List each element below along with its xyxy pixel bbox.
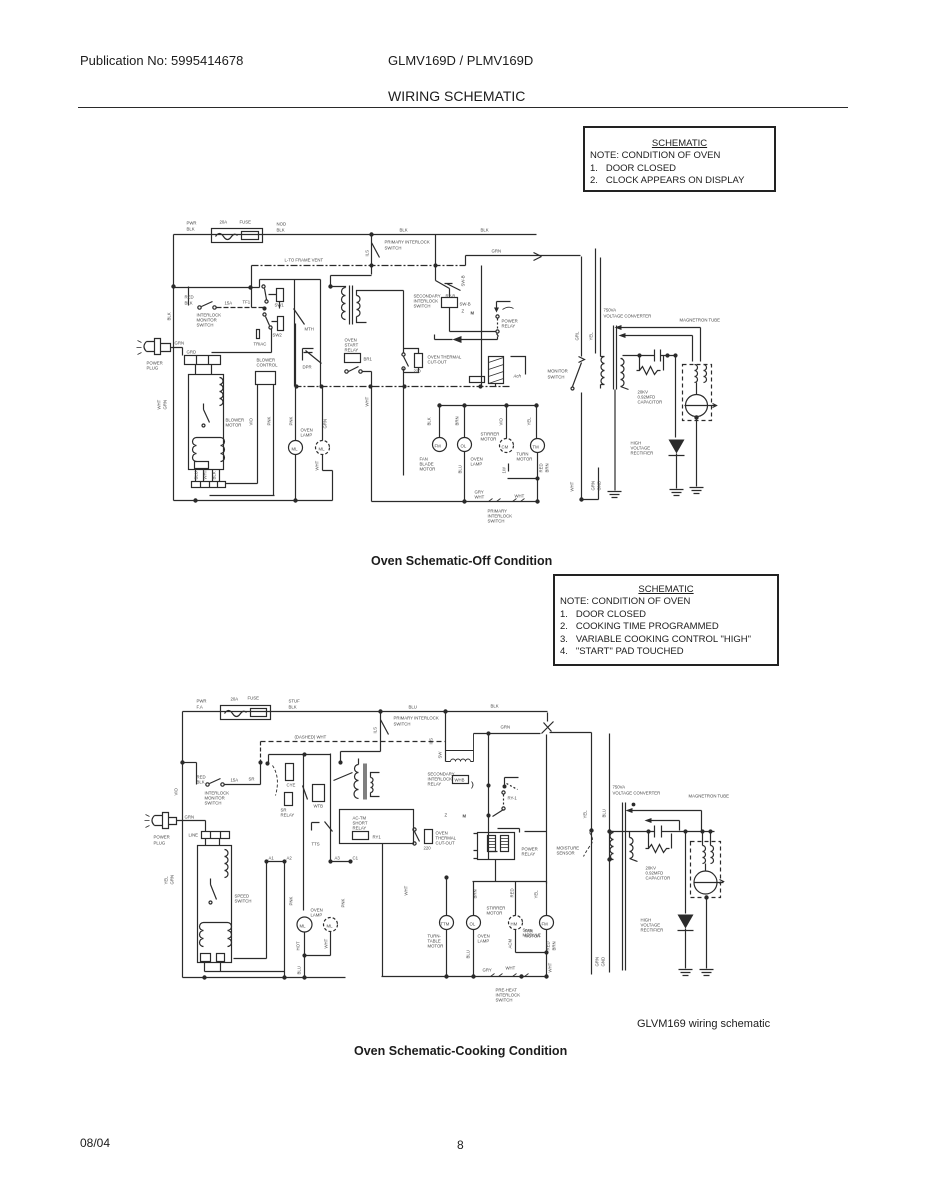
svg-text:BLU: BLU	[297, 966, 302, 974]
transformer HV primary	[610, 832, 614, 860]
wire motor bus	[439, 405, 537, 407]
svg-text:WHT: WHT	[570, 481, 575, 491]
svg-text:LINE: LINE	[189, 833, 199, 838]
switch blade mid	[303, 786, 308, 800]
svg-text:NOD: NOD	[277, 222, 287, 227]
svg-text:20A: 20A	[220, 220, 228, 225]
node transformer taps	[608, 830, 611, 833]
fuse F1 box	[212, 229, 263, 243]
wire dashed WHT	[261, 741, 446, 743]
switch TCO contacts	[413, 828, 416, 831]
switch DHR blade	[304, 351, 322, 364]
magnetron box dashed	[683, 365, 712, 421]
svg-text:MONITOR: MONITOR	[548, 369, 568, 374]
node mid bus	[444, 710, 447, 713]
svg-text:WHT: WHT	[506, 966, 516, 971]
relay coil loop	[446, 734, 474, 762]
resistor loop	[646, 834, 672, 853]
wire spur	[516, 952, 547, 954]
node LV top	[339, 761, 342, 764]
magnetron heater	[695, 365, 707, 383]
svg-text:BLK: BLK	[277, 228, 285, 233]
svg-text:ILS: ILS	[365, 250, 370, 257]
filament arrow 1	[615, 325, 622, 330]
switch SW-A blade	[436, 281, 450, 298]
transformer LV primary	[354, 765, 359, 799]
svg-text:YEL: YEL	[589, 332, 594, 341]
svg-text:BLK: BLK	[185, 301, 193, 306]
svg-text:BLU: BLU	[409, 705, 417, 710]
svg-text:BR1: BR1	[364, 357, 373, 362]
node junction	[172, 285, 175, 288]
svg-text:RELAY: RELAY	[428, 782, 442, 787]
svg-text:SWITCH: SWITCH	[414, 304, 431, 309]
blower switch	[211, 879, 217, 900]
svg-text:GND: GND	[601, 957, 606, 967]
wire cap row	[610, 831, 715, 833]
svg-text:TTS: TTS	[312, 842, 320, 847]
wire drop left	[196, 763, 198, 785]
wire x330	[330, 754, 332, 862]
svg-text:PNK: PNK	[341, 899, 346, 908]
svg-text:220: 220	[424, 846, 432, 851]
wire dash-dot lower	[295, 386, 511, 388]
resistor loop	[637, 356, 664, 375]
transformer T1 primary	[342, 288, 346, 320]
note box 1	[583, 126, 776, 192]
wire x266	[234, 862, 267, 959]
svg-text:MOTOR: MOTOR	[420, 467, 436, 472]
svg-text:CUT-OUT: CUT-OUT	[436, 841, 455, 846]
svg-text:ILS: ILS	[373, 727, 378, 734]
wire cap row	[623, 355, 676, 357]
svg-text:RY-B: RY-B	[446, 294, 456, 299]
squiggle hook	[472, 782, 474, 789]
wire x581 lower	[582, 393, 599, 500]
transformer LV core	[364, 764, 366, 800]
motor FM	[540, 916, 554, 930]
svg-text:BRN: BRN	[455, 416, 460, 425]
svg-text:VOLTAGE CONVERTER: VOLTAGE CONVERTER	[604, 314, 652, 319]
resistor WTB	[313, 785, 325, 802]
relay coil hatched B	[501, 836, 509, 852]
wire magnetron ground	[706, 898, 708, 969]
switch relay contact upper right	[445, 284, 461, 291]
svg-text:GRN: GRN	[595, 957, 600, 967]
svg-text:750VA: 750VA	[604, 308, 617, 313]
svg-text:PLUG: PLUG	[147, 366, 159, 371]
component box M1	[256, 372, 276, 385]
thermistor ticks	[489, 499, 525, 502]
relay assembly box	[478, 833, 515, 860]
node ILS top	[370, 233, 373, 236]
svg-text:GRN: GRN	[323, 419, 328, 429]
wire rail left	[183, 977, 346, 979]
svg-text:GRN: GRN	[170, 875, 175, 885]
svg-text:SWITCH: SWITCH	[197, 323, 214, 328]
svg-text:SWITCH: SWITCH	[205, 801, 222, 806]
svg-text:PNK: PNK	[267, 417, 272, 426]
wire x481 vertical	[481, 266, 483, 387]
svg-text:RED: RED	[510, 888, 515, 897]
svg-text:RELAY: RELAY	[502, 324, 516, 329]
svg-text:GRN: GRN	[163, 400, 168, 410]
ground magnetron	[700, 970, 714, 976]
svg-text:SR: SR	[249, 777, 255, 782]
svg-text:ML: ML	[327, 924, 334, 929]
filament arrow 1	[626, 808, 633, 813]
svg-text:BLK: BLK	[187, 227, 195, 232]
svg-text:PNK: PNK	[289, 897, 294, 906]
transformer T1 secondary	[357, 291, 367, 323]
wire grn riser	[465, 256, 467, 266]
wire plug to strip	[205, 821, 207, 832]
svg-text:FUSE: FUSE	[240, 220, 252, 225]
svg-text:YEL: YEL	[527, 417, 532, 426]
wire x595	[595, 249, 597, 354]
svg-text:WHT: WHT	[315, 460, 320, 470]
node dash junctions	[370, 264, 373, 267]
switch ILS2 dashed	[273, 766, 278, 796]
resistor R-B	[278, 317, 284, 331]
caption schematic 2	[354, 1044, 567, 1058]
svg-text:BLK: BLK	[481, 228, 489, 233]
wire OL down	[473, 930, 475, 977]
svg-text:WHT: WHT	[203, 469, 208, 479]
svg-text:PWR: PWR	[197, 699, 207, 704]
wire CL drop	[506, 406, 508, 439]
wire TTM down	[446, 930, 448, 977]
svg-text:POWER: POWER	[154, 835, 170, 840]
resistor R-A	[277, 289, 284, 302]
svg-text:VIO: VIO	[499, 417, 504, 425]
wire rail C	[372, 501, 538, 503]
resistor TCO	[425, 830, 433, 844]
svg-text:ML: ML	[319, 447, 326, 452]
node dash end	[259, 761, 262, 764]
node rail dots	[194, 499, 197, 502]
wire left vertical	[182, 712, 184, 978]
wire branch	[174, 266, 260, 308]
relay coil feed bracket	[498, 829, 547, 833]
wires strip to blower	[206, 839, 220, 846]
filament arrow 2	[645, 818, 652, 823]
wire x255 vertical	[226, 385, 258, 484]
svg-text:GND: GND	[597, 481, 602, 491]
svg-text:ML: ML	[300, 924, 307, 929]
svg-text:BLU: BLU	[466, 950, 471, 958]
relay armature	[505, 778, 519, 785]
svg-text:ML: ML	[292, 447, 299, 452]
wire GRN run	[474, 733, 541, 735]
svg-text:A1: A1	[269, 856, 275, 861]
svg-text:BRN: BRN	[545, 463, 550, 472]
node x591	[590, 829, 593, 832]
svg-text:FM: FM	[542, 922, 549, 927]
svg-text:RELAY: RELAY	[345, 348, 359, 353]
svg-text:WHT: WHT	[324, 938, 329, 948]
transformer HV core	[623, 803, 626, 971]
svg-text:CONTROL: CONTROL	[257, 363, 279, 368]
wire relay coil feed	[546, 735, 548, 884]
magnetron tube	[694, 871, 717, 894]
wire lamp spur	[305, 955, 331, 957]
terminal small	[257, 330, 260, 339]
wire TM down	[537, 453, 539, 502]
svg-text:WHT: WHT	[157, 399, 162, 409]
blower coil lower	[193, 438, 225, 462]
svg-text:OL: OL	[470, 922, 476, 927]
svg-text:GRD: GRD	[187, 350, 197, 355]
svg-text:MOTOR: MOTOR	[428, 944, 444, 949]
footer page number	[457, 1138, 464, 1152]
wire top bus L1	[183, 711, 548, 713]
svg-text:YEL: YEL	[583, 810, 588, 819]
relay bottom bracket	[474, 834, 498, 859]
svg-text:Z: Z	[445, 813, 448, 818]
svg-text:BLK: BLK	[289, 705, 297, 710]
wire upper tie	[260, 279, 321, 281]
node x488	[487, 732, 490, 735]
svg-text:BRN: BRN	[552, 941, 557, 950]
wire relay to bus	[495, 860, 497, 882]
switch LV blade	[334, 759, 359, 781]
node x250 junction	[249, 286, 252, 289]
svg-text:MTH: MTH	[305, 327, 314, 332]
blower motor block	[198, 846, 232, 963]
svg-text:FUSE: FUSE	[248, 696, 260, 701]
svg-text:TF1: TF1	[243, 300, 251, 305]
wire drop	[188, 287, 190, 306]
plug P1	[152, 813, 206, 829]
svg-text:RELAY: RELAY	[281, 813, 295, 818]
svg-text:Ach: Ach	[513, 374, 522, 379]
svg-text:RELAY: RELAY	[353, 826, 367, 831]
svg-text:WHB: WHB	[455, 778, 465, 783]
ground rectifier	[670, 490, 684, 496]
svg-text:LAMP: LAMP	[478, 939, 490, 944]
wire ML down	[295, 455, 297, 501]
wire rail C riser	[363, 372, 372, 502]
ground magnetron	[690, 488, 704, 494]
svg-text:ILS: ILS	[429, 738, 434, 745]
wire ILS to transformer	[331, 276, 372, 287]
blower motor block	[189, 375, 224, 470]
wire drops	[474, 882, 547, 916]
svg-text:(DASHED) WHT: (DASHED) WHT	[295, 735, 327, 740]
fuse F1 inner rect	[242, 232, 259, 240]
terminal row	[192, 482, 226, 488]
wire HM down	[515, 930, 517, 953]
svg-text:CUT-OUT: CUT-OUT	[428, 360, 447, 365]
fuse F1 box	[221, 706, 271, 720]
svg-text:VOLTAGE CONVERTER: VOLTAGE CONVERTER	[613, 791, 661, 796]
svg-text:PRIMARY INTERLOCK: PRIMARY INTERLOCK	[394, 716, 439, 721]
svg-text:RED: RED	[539, 463, 544, 472]
header model numbers	[388, 53, 533, 68]
svg-text:SWITCH: SWITCH	[394, 722, 411, 727]
ground rectifier	[679, 970, 693, 976]
svg-text:SW: SW	[438, 751, 443, 759]
note box 2	[553, 574, 779, 666]
svg-text:M: M	[463, 814, 467, 819]
svg-text:BLU: BLU	[458, 465, 463, 473]
wire grn col x581	[581, 257, 583, 357]
wire x600	[600, 258, 602, 354]
svg-text:SW-B: SW-B	[461, 275, 466, 286]
footer date	[80, 1136, 110, 1150]
header rule	[78, 107, 848, 108]
wire plug to strip	[182, 348, 184, 356]
svg-text:BLK: BLK	[491, 704, 499, 709]
svg-text:RECTIFIER: RECTIFIER	[631, 451, 654, 456]
wire ILS to transformer	[341, 752, 381, 763]
wire left vertical	[173, 235, 175, 501]
svg-text:LAMP: LAMP	[311, 913, 323, 918]
relay box SW-B	[442, 298, 458, 308]
svg-text:TM: TM	[533, 445, 540, 450]
wire spur y478	[508, 464, 538, 479]
svg-text:VIO: VIO	[249, 417, 254, 425]
svg-text:F.A: F.A	[197, 705, 203, 710]
svg-text:RED: RED	[185, 295, 194, 300]
svg-text:MOTOR: MOTOR	[525, 934, 541, 939]
svg-text:MOTOR: MOTOR	[487, 911, 503, 916]
svg-text:YEL: YEL	[164, 876, 169, 885]
block rails	[295, 280, 321, 387]
svg-text:STUF: STUF	[289, 699, 301, 704]
capacitor C1	[655, 350, 661, 362]
lamp ML2 dashed	[316, 441, 330, 455]
svg-text:GRY: GRY	[483, 968, 492, 973]
caption wiring schematic label	[637, 1018, 770, 1030]
svg-text:MAGNETRON TUBE: MAGNETRON TUBE	[689, 794, 730, 799]
wire dash-dot upper	[252, 265, 466, 267]
svg-text:MOTOR: MOTOR	[226, 423, 242, 428]
svg-text:MOTOR: MOTOR	[517, 457, 533, 462]
svg-text:YEL: YEL	[534, 890, 539, 899]
wire mid bus	[435, 235, 437, 281]
blower switch	[204, 404, 210, 423]
transformer T2 core ground line	[614, 390, 616, 491]
switch ILS primary interlock	[381, 712, 389, 752]
svg-text:BLU: BLU	[194, 471, 199, 479]
svg-text:BLK: BLK	[427, 417, 432, 425]
wire line y754	[269, 755, 331, 763]
wire magnetron ground	[696, 418, 698, 487]
blower coil upper	[220, 378, 224, 406]
svg-text:BLK: BLK	[167, 312, 172, 320]
switch TCO contacts	[402, 353, 405, 356]
resistor MEL	[285, 793, 293, 806]
wire x488 vertical	[488, 734, 490, 860]
magnetron tube	[686, 395, 708, 417]
transformer HV secondary	[630, 832, 638, 862]
lamp CL dashed	[500, 439, 514, 453]
relay RY-1 armature	[497, 302, 511, 308]
lamp ML	[289, 441, 303, 455]
svg-text:HM: HM	[511, 922, 518, 927]
svg-text:FM: FM	[435, 444, 442, 449]
wire branch	[183, 762, 197, 764]
svg-text:SWITCH: SWITCH	[488, 519, 505, 524]
contact TTS bracket	[312, 823, 320, 831]
relay big box	[340, 810, 414, 844]
magnetron heater	[703, 832, 714, 864]
svg-text:SW-B: SW-B	[460, 302, 471, 307]
svg-text:PWR: PWR	[187, 221, 197, 226]
transformer T2 secondary	[621, 359, 629, 390]
svg-text:CM: CM	[502, 445, 509, 450]
lamp OL	[458, 438, 472, 452]
antenna arrow	[713, 404, 717, 408]
arrowhead	[453, 336, 462, 343]
wire strip to motor	[196, 365, 212, 375]
blower coil lower	[200, 923, 232, 947]
relay coil box hatched	[489, 357, 504, 384]
wire x284	[284, 862, 286, 978]
antenna arrow	[720, 880, 724, 884]
resistor oven TC	[415, 354, 423, 368]
relay coil hatched A	[488, 836, 496, 852]
motor FM	[433, 438, 447, 452]
terminal strip	[202, 832, 230, 839]
svg-text:TRIAC: TRIAC	[254, 342, 267, 347]
switch ILS primary interlock	[372, 235, 380, 275]
svg-text:HOT: HOT	[296, 941, 301, 950]
svg-text:WHT: WHT	[404, 885, 409, 895]
thermistor ticks	[491, 974, 529, 977]
svg-text:C1: C1	[353, 856, 359, 861]
svg-text:WHT: WHT	[365, 396, 370, 406]
svg-text:SWITCH: SWITCH	[235, 899, 252, 904]
wire GRN to HV	[550, 732, 592, 734]
wires blower out	[205, 963, 221, 972]
wire y352	[212, 352, 272, 354]
svg-text:SWITCH: SWITCH	[548, 375, 565, 380]
svg-text:GRN: GRN	[591, 481, 596, 491]
connector and switch x581	[573, 357, 585, 387]
svg-text:GRN: GRN	[492, 249, 502, 254]
wire TTM stub	[446, 878, 448, 916]
switch blade B	[263, 313, 266, 316]
svg-text:SW1: SW1	[275, 303, 285, 308]
svg-text:750VA: 750VA	[613, 785, 626, 790]
svg-text:BLU: BLU	[602, 809, 607, 817]
svg-text:BLK: BLK	[197, 780, 205, 785]
svg-text:MAGNETRON TUBE: MAGNETRON TUBE	[680, 318, 721, 323]
svg-text:RECTIFIER: RECTIFIER	[641, 928, 664, 933]
svg-text:LAMP: LAMP	[301, 433, 313, 438]
svg-text:Z: Z	[462, 309, 465, 314]
svg-text:M: M	[471, 311, 475, 316]
svg-text:TTM: TTM	[441, 922, 450, 927]
switch blade A	[262, 285, 265, 288]
lamp ML2 dashed	[324, 918, 338, 932]
svg-text:L-TO FRAME VENT: L-TO FRAME VENT	[285, 258, 324, 263]
svg-text:GRN: GRN	[501, 725, 511, 730]
wire OL drop	[464, 406, 466, 438]
wire rail A	[174, 500, 333, 502]
lamp OL	[467, 916, 481, 930]
plug P1	[144, 339, 183, 355]
page title	[388, 88, 525, 104]
relay contact RY-1	[542, 713, 554, 734]
relay box WHB	[453, 776, 469, 784]
switch TTS blade	[325, 822, 333, 832]
wire ML2 down	[330, 932, 332, 956]
wire mid bus vertical	[445, 712, 447, 762]
